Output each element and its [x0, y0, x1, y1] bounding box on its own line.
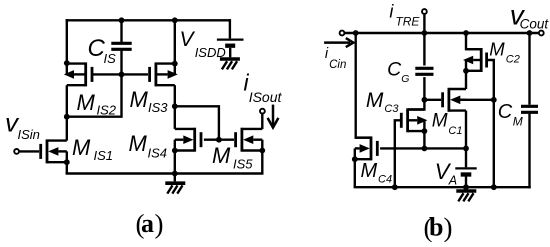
transistor M_IS3 body lead with arrow: [168, 70, 178, 79]
transistor M_IS4 source lead: [175, 149, 194, 151]
wire: C_M bottom lead to ground rail: [528, 113, 530, 189]
wire: M_C4 source to ground rail: [354, 159, 356, 187]
transistor M_C2 body lead with arrow: [463, 56, 473, 65]
svg-text:ISDD: ISDD: [195, 45, 226, 60]
node: M_IS2 drain / M_IS1 drain / diode link junction: [64, 114, 70, 120]
ground circuit (b) bar: [456, 189, 476, 193]
transistor M_IS4 body-to-source stub: [174, 140, 176, 151]
wire: VA gate row: [380, 147, 466, 149]
wire: M_C3 source down to VA row: [423, 131, 425, 148]
node: C_IS bottom / gate junction: [119, 72, 125, 78]
wire: top rail of circuit (b): [345, 32, 538, 34]
node: VA / M_C1 source junction: [463, 146, 469, 152]
transistor M_C1 drain lead: [449, 88, 466, 90]
ground circuit (b) hatches: [468, 193, 473, 201]
wire: left column from rail to M_IS2 source: [66, 19, 68, 63]
wire: C_M top lead: [528, 33, 530, 105]
node: C_IS on VDD rail: [119, 17, 125, 23]
terminal: v_Cout output: [539, 31, 544, 36]
wire: i_TRE probe lead / C_G top lead: [423, 14, 425, 65]
wire: link to M_IS4/M_IS5 gate rail: [175, 106, 219, 139]
transistor M_C4 channel bar: [370, 136, 373, 160]
wire: M_IS5 drain to output terminal: [261, 114, 263, 129]
node: M_C2 drain / M_C1 drain junction: [463, 68, 469, 74]
svg-text:a: a: [141, 209, 154, 238]
transistor M_C4 gate bar: [376, 141, 379, 156]
transistor M_IS5 drain lead: [242, 128, 262, 130]
wire: M_C1 source down to VA node: [465, 111, 467, 149]
wire: M_IS3 source column from rail: [174, 19, 176, 74]
wire: VA battery top lead: [465, 148, 467, 167]
node: M_C2 gate / M_C1 body / ground column junction: [491, 97, 497, 103]
transistor M_IS1 body-to-source stub: [66, 151, 68, 162]
node: M_C3 source on VA row: [422, 146, 428, 152]
transistor M_IS2 source lead: [67, 84, 85, 86]
transistor M_IS1 channel bar: [46, 139, 49, 163]
transistor M_C2 source lead: [466, 70, 481, 72]
ground circuit (a) bar: [165, 181, 185, 185]
transistor M_IS2 channel bar: [84, 62, 87, 86]
battery V_A top plate: [455, 167, 476, 169]
node: i_TRE / C_G column on rail: [422, 30, 428, 36]
transistor M_IS5 gate bar: [234, 132, 237, 147]
svg-text:G: G: [401, 73, 409, 85]
svg-text:M: M: [366, 89, 384, 112]
transistor M_C1 source lead: [449, 109, 466, 111]
wire: gate rail M_IS2-M_IS3: [91, 73, 148, 75]
wire: VA battery to ground rail: [465, 175, 467, 188]
wire: C_G bottom lead: [423, 77, 425, 100]
wire: M_C3 gate down to ground rail: [395, 120, 401, 187]
wire: C_IS bottom lead: [120, 50, 122, 75]
node: M_IS5 source junction: [259, 148, 265, 154]
node: M_C3 source junction: [422, 128, 428, 134]
node: ground tap on rail: [172, 171, 178, 177]
capacitor C_G bottom plate: [415, 73, 433, 76]
transistor M_C4 body lead with arrow: [360, 144, 370, 153]
svg-text:Cout: Cout: [520, 17, 550, 32]
transistor M_IS4 channel bar: [193, 128, 196, 152]
terminal: i_TRE probe: [422, 9, 427, 14]
svg-text:IS: IS: [104, 51, 117, 66]
wire: bottom ground rail of circuit (b): [354, 186, 531, 188]
battery V_ISDD top plate: [217, 38, 244, 40]
transistor M_C2 channel bar: [480, 48, 483, 72]
node: mirror gate junction: [216, 137, 222, 143]
node: ground column on bottom rail: [491, 184, 497, 190]
transistor M_C3 body lead with arrow: [417, 116, 427, 125]
battery V_ISDD bottom plate: [225, 44, 235, 48]
svg-text:A: A: [448, 173, 457, 187]
transistor M_C3 channel bar: [406, 108, 409, 132]
transistor M_C3 body-to-source stub: [423, 120, 425, 131]
svg-text:ISout: ISout: [249, 89, 283, 105]
node: C_G / M_C1 gate / M_C3 drain junction: [422, 97, 428, 103]
transistor M_C3 drain lead: [408, 108, 424, 110]
transistor M_IS3 channel bar: [154, 62, 157, 86]
svg-text:M: M: [72, 135, 91, 160]
svg-text:V: V: [180, 28, 196, 51]
transistor M_IS5 channel bar: [240, 128, 243, 152]
svg-text:C2: C2: [506, 54, 520, 66]
wire: M_C1 drain up to M_C2 drain: [465, 71, 467, 89]
terminal: v_ISin input: [14, 149, 19, 154]
capacitor C_M bottom plate: [521, 111, 538, 114]
ground circuit (a) hatches: [177, 185, 182, 193]
svg-text:M: M: [212, 143, 231, 168]
svg-text:IS2: IS2: [97, 103, 117, 118]
wire: M_IS5 source to ground rail: [261, 151, 263, 174]
node: M_IS2 source junction: [64, 60, 70, 66]
transistor M_IS2 body lead with arrow: [64, 70, 74, 79]
wire: V_ISDD to ground lead: [229, 48, 231, 57]
node: C_M column on rail: [527, 30, 533, 36]
wire: M_C2 source from rail: [466, 33, 481, 49]
transistor M_C4 body-to-source stub: [354, 148, 356, 159]
wire: ground stub (b): [465, 187, 467, 189]
svg-text:b: b: [429, 213, 443, 242]
wire: M_C1 gate rail: [424, 99, 441, 101]
transistor M_IS5 source lead: [242, 149, 262, 151]
node: M_C3 gate on bottom rail: [392, 184, 398, 190]
node: M_IS4 source junction: [172, 148, 178, 154]
node: M_IS1 source junction: [64, 159, 70, 165]
transistor M_C1 channel bar: [447, 88, 450, 112]
wire: battery V_ISDD top lead: [229, 19, 231, 38]
svg-text:IS4: IS4: [148, 146, 168, 161]
transistor M_IS4 gate bar: [200, 132, 203, 147]
transistor M_IS3 gate bar: [148, 67, 151, 82]
transistor M_IS1 drain lead: [48, 139, 67, 141]
capacitor C_IS top plate: [111, 42, 131, 45]
arrow: i_Cin current direction: [324, 41, 350, 44]
svg-text:IS5: IS5: [233, 157, 253, 172]
transistor M_C4 source lead: [355, 158, 371, 160]
svg-text:ISin: ISin: [18, 127, 40, 142]
node: i_Cin column on rail: [353, 30, 359, 36]
wire: ground rail of circuit (a): [66, 172, 68, 174]
wire: ground column right: [493, 100, 495, 187]
transistor M_C4 drain lead: [355, 136, 371, 138]
wire: M_IS2 body stub: [66, 63, 68, 74]
transistor M_IS4 drain lead: [175, 128, 194, 130]
transistor M_C3 gate bar: [400, 113, 403, 128]
transistor M_IS2 drain lead: [67, 62, 85, 64]
svg-text:C: C: [387, 59, 402, 81]
transistor M_IS3 source lead: [156, 84, 174, 86]
transistor M_IS5 body-to-source stub: [261, 140, 263, 151]
arrow: i_ISout current direction: [272, 105, 275, 127]
node: M_IS3 column on VDD rail: [172, 17, 178, 23]
transistor M_IS1 body lead with arrow: [48, 147, 58, 156]
wire: i_Cin column down to M_C4 drain: [356, 33, 370, 138]
svg-text:TRE: TRE: [395, 15, 420, 29]
wire: C_IS top lead from rail: [120, 20, 122, 43]
wire: VDD top rail of circuit (a): [66, 19, 230, 21]
node: M_C2 column on rail: [463, 30, 469, 36]
svg-text:C: C: [498, 101, 513, 123]
svg-text:M: M: [77, 90, 96, 115]
terminal: i_ISout output: [260, 109, 265, 114]
wire: input to M_IS1 gate: [19, 150, 39, 152]
transistor M_IS4 body lead with arrow: [183, 135, 193, 144]
node: M_IS3 source junction: [172, 61, 178, 67]
svg-text:IS3: IS3: [148, 100, 168, 115]
transistor M_IS3 drain lead: [156, 62, 174, 64]
node: VA battery on bottom rail: [463, 184, 469, 190]
capacitor C_G top plate: [415, 67, 433, 70]
wire: ground stub (a): [174, 174, 176, 182]
ground below V_ISDD bar: [220, 57, 240, 61]
transistor M_C1 gate bar: [441, 92, 444, 107]
capacitor C_IS bottom plate: [111, 48, 131, 51]
svg-text:C3: C3: [384, 103, 399, 115]
transistor M_IS2 gate bar: [91, 67, 94, 82]
svg-text:M: M: [129, 131, 148, 156]
terminal: i_Cin input: [340, 31, 345, 36]
svg-text:M: M: [361, 160, 378, 182]
transistor M_C2 gate bar: [485, 53, 488, 68]
svg-text:Cin: Cin: [329, 59, 346, 71]
svg-text:M: M: [513, 114, 523, 128]
ground below V_ISDD hatches: [232, 61, 237, 69]
transistor M_C2 drain lead: [466, 48, 481, 50]
wire: gate rail M_IS4-M_IS5: [204, 138, 234, 140]
wire: M_C3 drain up to C_G node: [408, 100, 424, 110]
svg-text:): ): [444, 213, 453, 243]
wire: M_IS2 drain down-link: [66, 85, 68, 140]
svg-text:C4: C4: [378, 173, 392, 185]
svg-text:IS1: IS1: [94, 148, 114, 163]
svg-text:M: M: [432, 111, 448, 132]
transistor M_IS1 gate bar: [39, 144, 42, 159]
wire: M_IS1 source to ground rail: [66, 162, 68, 173]
wire: M_C2 gate to ground column: [487, 60, 494, 100]
svg-text:): ): [155, 209, 164, 239]
battery V_A bottom plate: [461, 172, 472, 176]
wire: M_IS5 source corner: [261, 172, 263, 174]
svg-text:M: M: [489, 38, 505, 59]
svg-text:M: M: [130, 87, 149, 112]
svg-text:C1: C1: [448, 125, 462, 137]
wire: M_IS4 source to ground rail: [174, 151, 176, 174]
node: M_C4 source junction: [352, 156, 358, 162]
wire: diode connection link to gate node: [67, 74, 122, 116]
transistor M_C2 body-to-source stub: [465, 60, 467, 71]
wire: M_C1 body to ground column: [460, 99, 494, 101]
capacitor C_M top plate: [521, 105, 538, 108]
transistor M_IS1 source lead: [48, 161, 67, 163]
transistor M_C3 source lead: [408, 130, 424, 132]
transistor M_IS5 body lead with arrow: [243, 135, 253, 144]
node: M_IS3 drain to mirror-gate junction: [172, 103, 178, 109]
wire: M_IS3 drain column down to M_IS4: [174, 85, 176, 129]
transistor M_C1 body lead with arrow: [450, 96, 460, 105]
